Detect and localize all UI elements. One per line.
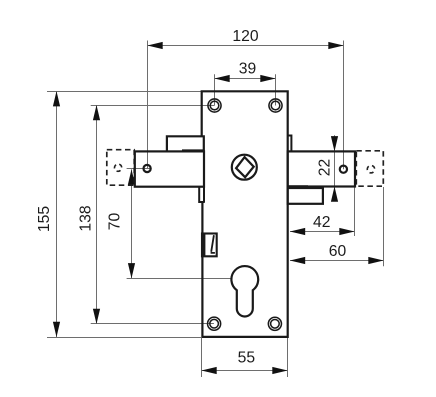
left step bottom dark overlap [182, 149, 204, 152]
arrow 42 right [339, 228, 354, 235]
dimension line 55 [202, 370, 288, 372]
dimension line 42 [290, 231, 355, 233]
right dashed circle [367, 166, 374, 173]
extension line 39 right [275, 74, 277, 105]
svg-text:155: 155 [36, 206, 53, 232]
svg-text:39: 39 [239, 61, 256, 78]
svg-text:22: 22 [317, 159, 334, 176]
extension line 70 bottom [127, 278, 232, 280]
right faceplate tab outline [288, 151, 355, 186]
arrow 155 top [53, 91, 60, 106]
arrow 120 right [328, 42, 343, 49]
left tab hole [144, 165, 151, 172]
dimension line 39 [215, 78, 276, 80]
spindle follower circle [232, 155, 257, 180]
right lower step outline [288, 188, 323, 204]
svg-text:60: 60 [329, 243, 347, 260]
arrow 39 right [260, 75, 275, 82]
arrow 138 bottom [93, 309, 100, 324]
dimension line 138 [96, 106, 98, 324]
arrow 120 left [147, 42, 162, 49]
bottom-left screw hole [208, 317, 221, 330]
left step fill [167, 136, 204, 151]
extension line 70 top [127, 168, 152, 170]
bottom-right screw hole [268, 317, 281, 330]
left faceplate tab outline [135, 151, 204, 186]
right dashed strike box [356, 151, 383, 186]
left dashed circle [115, 164, 122, 171]
extension line 120 left [147, 41, 149, 169]
dimension line 60 [290, 260, 384, 262]
extension line 55 left [201, 338, 203, 377]
extension line 42 right [354, 188, 356, 237]
extension line 39 left [214, 74, 216, 105]
arrow 60 right [368, 257, 383, 264]
right tab hole [340, 166, 347, 173]
arrow 22 top [331, 136, 338, 151]
top-left screw hole [208, 99, 221, 112]
arrow 55 left [201, 367, 216, 374]
case left edge jog below tab [199, 187, 205, 202]
latch detail box [202, 234, 217, 257]
latch left dark bar [202, 234, 206, 257]
arrow 55 right [272, 367, 287, 374]
svg-text:42: 42 [313, 214, 330, 231]
right faceplate tab fill [288, 151, 355, 186]
svg-text:138: 138 [78, 205, 95, 231]
latch slanted lever [211, 235, 215, 253]
left step outline [167, 136, 204, 151]
euro cylinder keyhole [231, 266, 258, 316]
arrow 60 left [290, 257, 305, 264]
extension line 155 top [47, 91, 201, 93]
right edge notch [287, 136, 291, 152]
arrow 70 bottom [128, 263, 135, 278]
arrow 70 top [128, 169, 135, 184]
dimension line 22 [334, 135, 336, 200]
lock case outline [202, 91, 288, 337]
extension line 60 right [383, 187, 385, 266]
extension line 155 bottom [47, 337, 201, 339]
right tab bottom dark overlap [288, 185, 308, 188]
dimension line 120 [148, 45, 344, 47]
left dashed strike box [107, 150, 134, 186]
spindle square hole [236, 157, 254, 177]
arrow 22 bottom [331, 187, 338, 202]
dimension line 70 [131, 169, 133, 278]
svg-text:70: 70 [107, 213, 124, 231]
top-right screw hole [269, 99, 282, 112]
arrow 138 top [93, 105, 100, 120]
arrow 39 left [214, 75, 229, 82]
svg-text:55: 55 [238, 350, 256, 367]
arrow 42 left [290, 228, 305, 235]
extension line 55 right [287, 338, 289, 377]
dimension line 155 [56, 91, 58, 337]
right lower step fill [288, 188, 323, 204]
lock case body fill [202, 91, 288, 337]
svg-text:120: 120 [232, 28, 258, 45]
extension line 138 bottom [91, 323, 214, 325]
extension line 120 right [343, 41, 345, 170]
extension line 138 top [91, 105, 215, 107]
arrow 155 bottom [53, 322, 60, 337]
left faceplate tab fill [135, 151, 204, 186]
